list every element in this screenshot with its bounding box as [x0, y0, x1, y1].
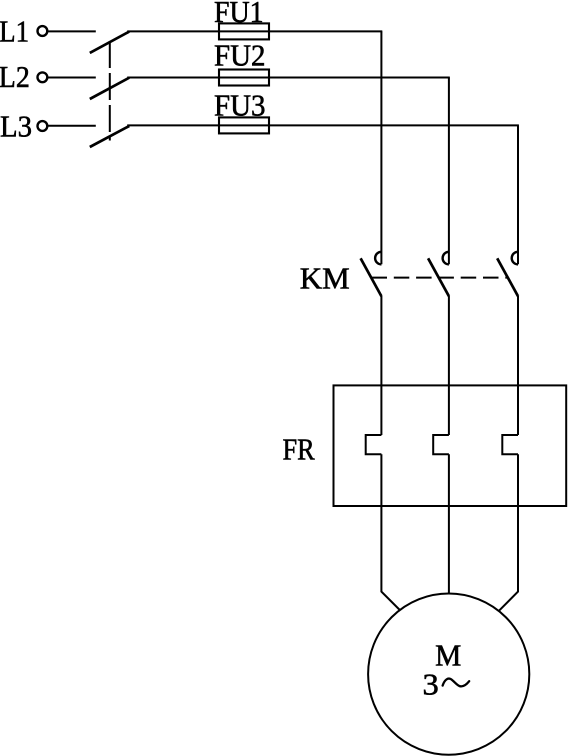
terminal L1	[38, 26, 48, 36]
fuse FU3	[219, 117, 269, 133]
label L3	[0, 110, 32, 144]
svg-text:FR: FR	[283, 432, 316, 466]
switch QS blade pole 3	[90, 126, 129, 147]
FR heater element 2	[433, 435, 449, 454]
wire phase 2 vertical down to KM	[448, 78, 450, 265]
wire switch pole 2 to FU2	[127, 77, 219, 79]
wire L1 terminal to switch	[48, 30, 96, 32]
wire FU3 to node C	[218, 124, 519, 126]
label FU2	[214, 39, 266, 73]
label 3	[423, 667, 439, 701]
svg-text:L1: L1	[0, 15, 29, 49]
contactor KM linkage dashed line	[372, 277, 508, 279]
wire FR element 3 to motor	[498, 454, 518, 611]
label FU1	[214, 0, 264, 30]
fuse FU1	[219, 23, 269, 39]
motor M circle	[368, 594, 529, 755]
contactor KM contact 3 fixed terminal arc	[512, 252, 518, 265]
wire switch pole 1 to FU1	[127, 30, 219, 32]
switch QS linkage dashed line	[109, 41, 111, 141]
contactor KM contact 2 blade	[428, 258, 449, 296]
label L2	[0, 61, 30, 95]
wire FU2 to node B	[218, 77, 450, 79]
FR heater element 3	[502, 435, 518, 454]
wire KM contact 1 to FR element 1	[380, 296, 382, 435]
label FR	[283, 432, 316, 466]
wire FR element 2 to motor	[448, 454, 450, 594]
switch QS blade pole 2	[90, 78, 129, 99]
wire L3 terminal to switch	[48, 125, 96, 127]
contactor KM contact 2 fixed terminal arc	[443, 252, 449, 265]
svg-text:L3: L3	[0, 110, 32, 144]
thermal relay FR box	[334, 385, 567, 506]
wire phase 1 vertical down to KM	[380, 31, 382, 264]
svg-text:3: 3	[423, 667, 439, 701]
svg-text:L2: L2	[0, 61, 30, 95]
wire KM contact 2 to FR element 2	[448, 296, 450, 435]
label M	[435, 638, 461, 673]
wire phase 3 vertical down to KM	[517, 125, 519, 264]
label tilde of 3~	[443, 679, 470, 687]
contactor KM contact 1 fixed terminal arc	[375, 252, 381, 265]
label L1	[0, 15, 29, 49]
FR heater element 1	[366, 435, 382, 454]
fuse FU2	[219, 70, 269, 86]
wire KM contact 3 to FR element 3	[517, 296, 519, 435]
terminal L2	[38, 72, 48, 82]
wire L2 terminal to switch	[48, 77, 96, 79]
svg-text:KM: KM	[300, 260, 350, 295]
svg-text:FU1: FU1	[214, 0, 264, 30]
contactor KM contact 3 blade	[497, 258, 518, 296]
wire FR element 1 to motor	[381, 454, 400, 610]
wire switch pole 3 to FU3	[127, 124, 219, 126]
terminal L3	[38, 121, 48, 131]
switch QS blade pole 1	[90, 32, 129, 53]
wire FU1 to node A	[218, 30, 382, 32]
label FU3	[214, 89, 266, 123]
contactor KM contact 1 blade	[361, 258, 382, 296]
svg-text:FU2: FU2	[214, 39, 266, 73]
label KM	[300, 260, 350, 295]
svg-text:M: M	[435, 638, 461, 673]
